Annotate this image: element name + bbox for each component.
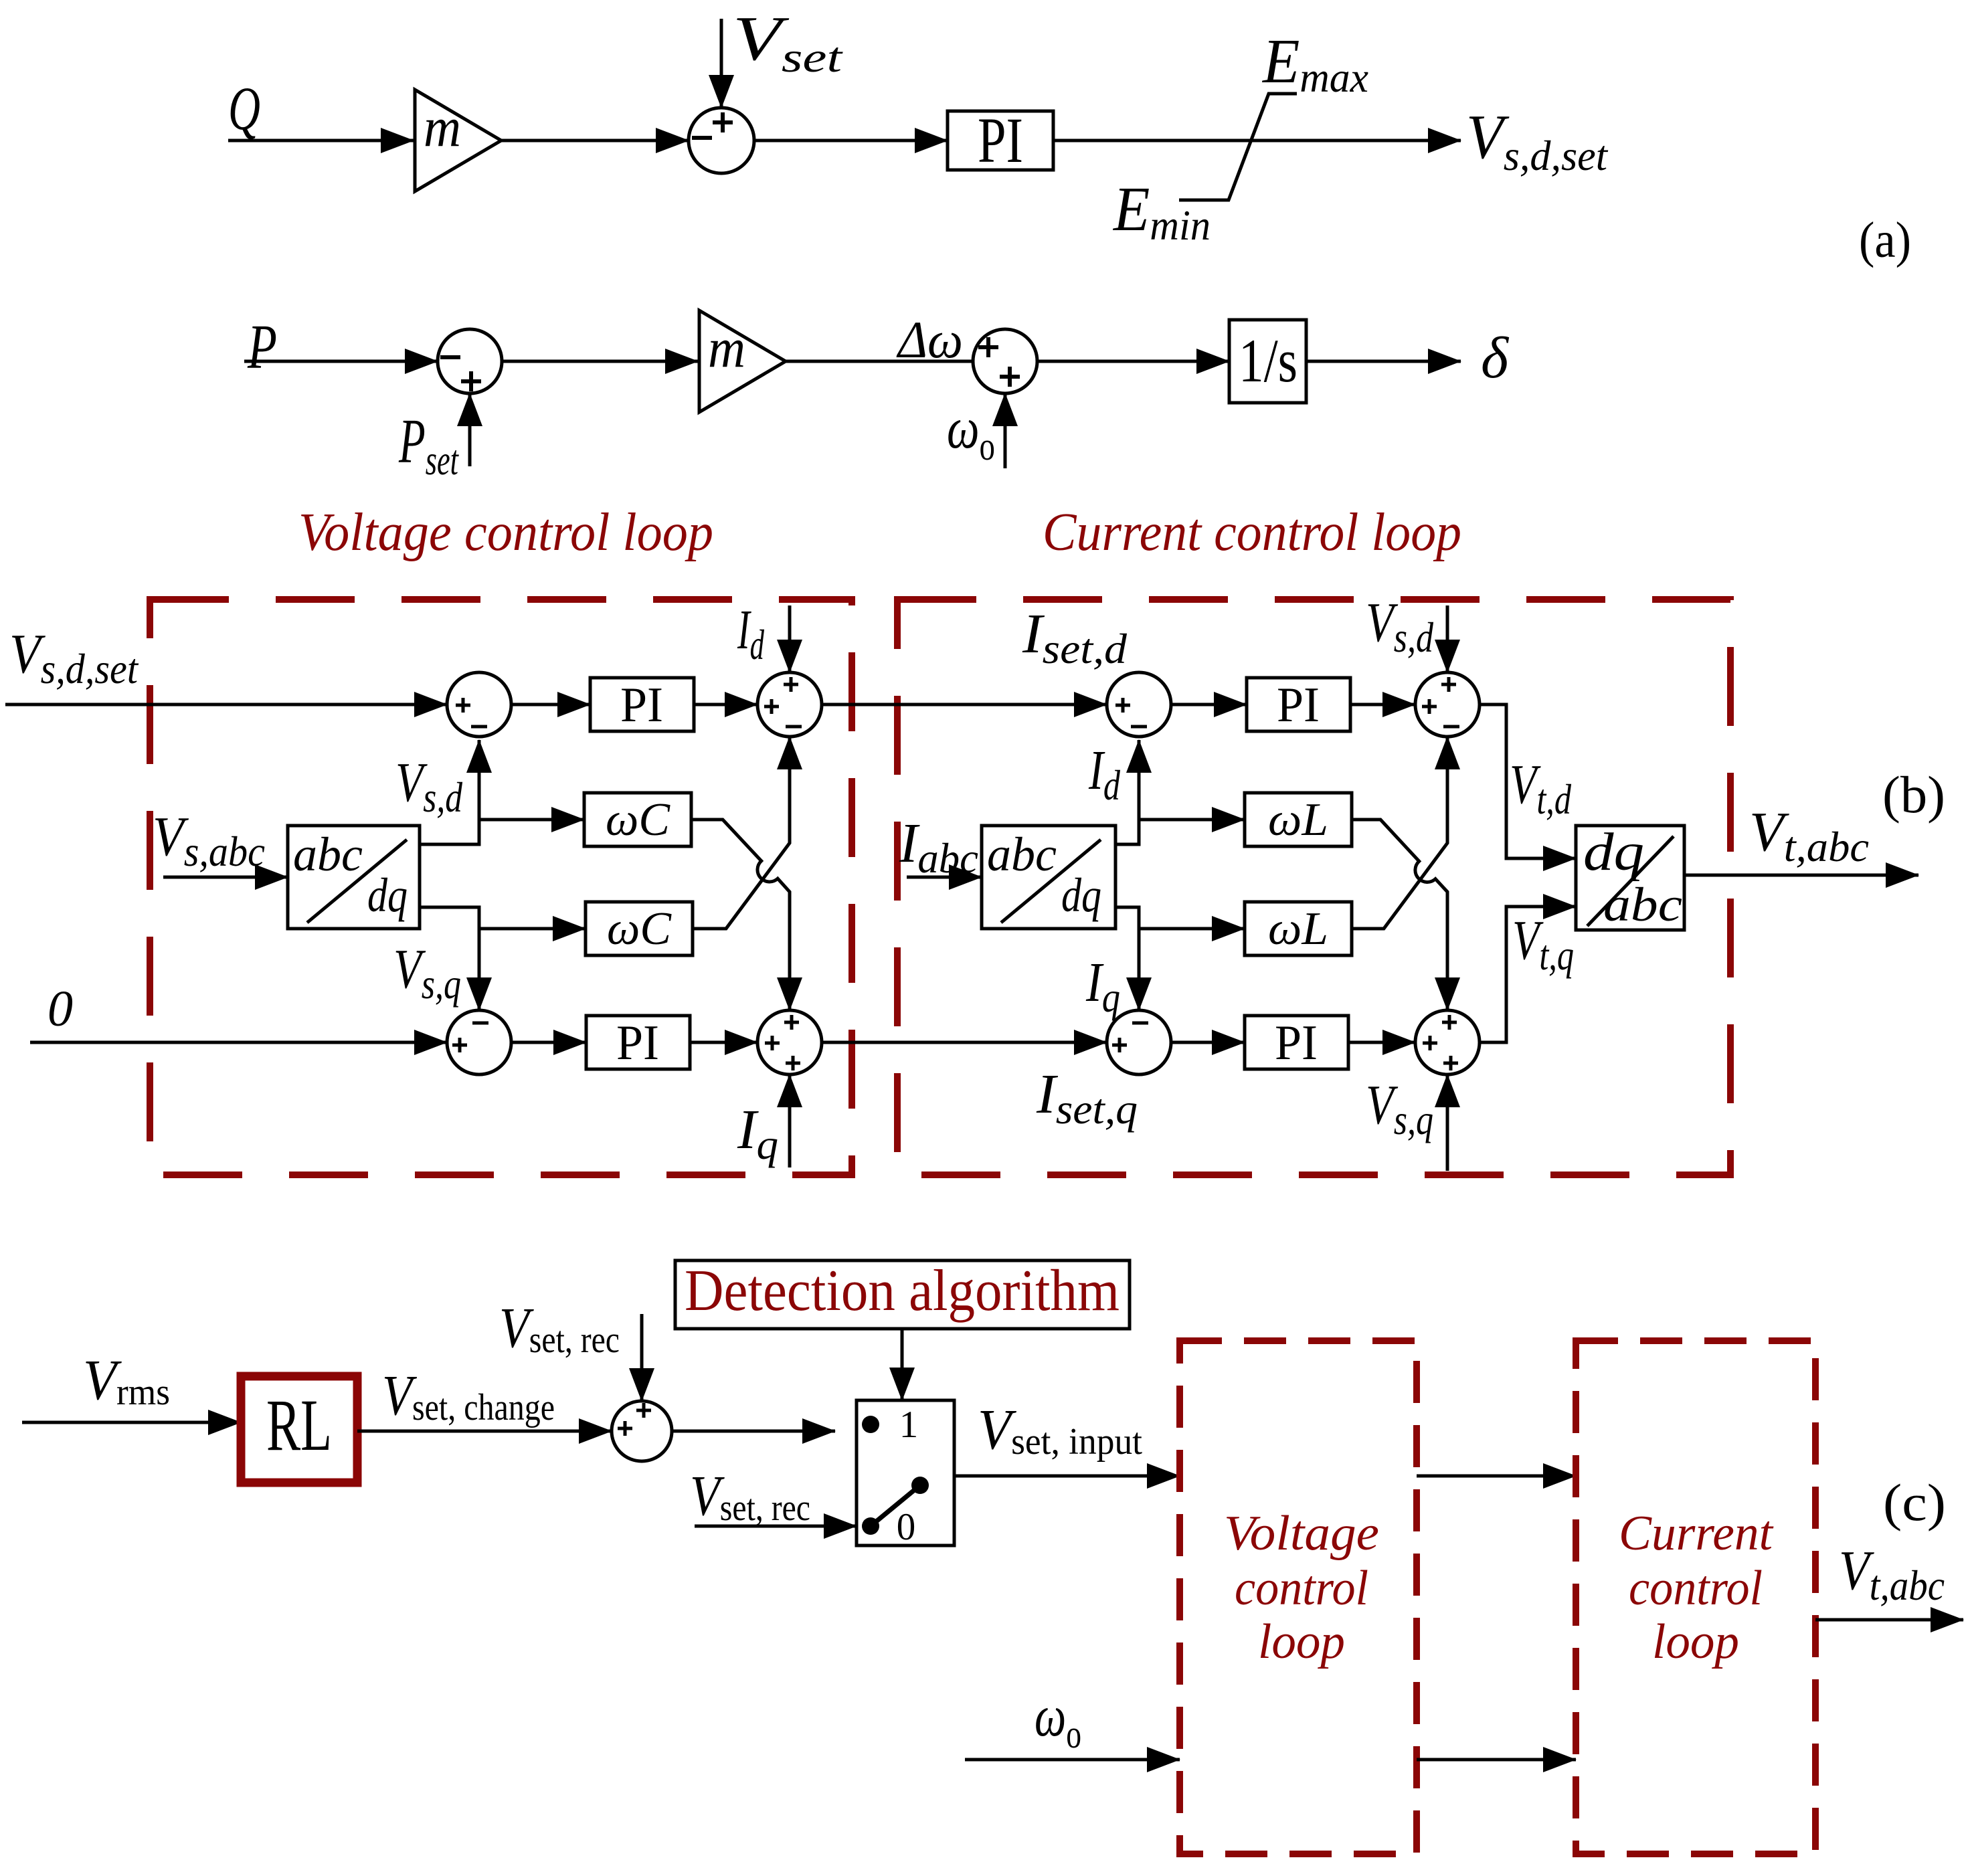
svg-text:dq: dq [1583, 823, 1644, 882]
svg-text:loop: loop [1652, 1614, 1739, 1669]
summing junction VB1 [447, 1010, 511, 1074]
transform block abc/dq2 [982, 826, 1115, 929]
wire Vsd into CA2 [1446, 605, 1449, 672]
svg-text:0: 0 [897, 1506, 916, 1548]
wire branch to omegaL2 [1139, 927, 1245, 931]
wire Pset into S2 [468, 393, 472, 466]
PI block PI5 [1245, 1016, 1348, 1069]
svg-text:PI: PI [620, 678, 663, 733]
wire PI4 to VB2 [690, 1041, 757, 1044]
svg-text:P: P [247, 312, 277, 382]
summing junction S9 [612, 1401, 672, 1461]
gain m2 triangle [699, 310, 786, 412]
wire Id into VA2 [788, 605, 792, 672]
summing junction CA1 [1107, 672, 1171, 737]
wire S1 to PI1 [754, 139, 948, 143]
wire omegaL2 cross up to CA2 [1352, 737, 1447, 929]
integrator block 1/s [1229, 320, 1306, 403]
svg-text:(c): (c) [1883, 1473, 1946, 1531]
wire voltage loop to current loop top [1417, 1475, 1576, 1478]
svg-text:RL: RL [266, 1384, 332, 1466]
wire current loop to Vtabc output [1815, 1618, 1963, 1622]
wire RL to S9 [357, 1430, 612, 1433]
svg-text:PI: PI [1275, 1016, 1318, 1070]
wire omegaL1 cross down to CB2 with hop [1352, 820, 1447, 1010]
wire PI5 to CB2 [1348, 1041, 1415, 1044]
block omegaC1 [584, 793, 691, 846]
wire switch to voltage loop [954, 1475, 1180, 1478]
svg-text:dq: dq [367, 868, 408, 922]
dashed box voltage control loop (c) [1180, 1341, 1417, 1854]
svg-text:m: m [708, 317, 745, 379]
svg-text:Voltage: Voltage [1224, 1506, 1379, 1561]
detection algorithm block [675, 1260, 1130, 1329]
wire VB2 to CB1 [822, 1041, 1107, 1044]
wire detection to switch [901, 1329, 904, 1400]
PI block PI3 [1247, 678, 1350, 731]
svg-text:abc: abc [293, 828, 363, 881]
summing junction CB1 [1107, 1010, 1171, 1074]
wire dq/abc to Vtabc output [1684, 874, 1918, 877]
dashed box current control loop [897, 599, 1730, 1175]
svg-text:control: control [1629, 1561, 1763, 1616]
transform block abc/dq1 [288, 826, 420, 929]
summing junction VA1 [447, 672, 511, 737]
wire Vsabc into abc/dq1 [163, 876, 288, 879]
wire S9 to switch input 1 [672, 1430, 835, 1433]
svg-text:control: control [1235, 1561, 1368, 1616]
wire VA2 to CA1 [822, 703, 1107, 707]
summing junction VB2 [757, 1010, 822, 1074]
summing junction S2 [438, 329, 502, 393]
wire abc/dq2 Id output up to CA1 [1115, 740, 1139, 844]
wire m2 to summing junction S3 [786, 360, 973, 363]
svg-text:δ: δ [1481, 326, 1510, 391]
svg-text:dq: dq [1061, 868, 1101, 922]
svg-text:abc: abc [987, 828, 1057, 881]
svg-text:Current control loop: Current control loop [1043, 503, 1461, 562]
dashed box voltage control loop [150, 599, 852, 1175]
block omegaL2 [1245, 902, 1352, 955]
wire 1/s to delta output [1306, 360, 1461, 363]
wire VA1 to PI2 [511, 703, 590, 707]
wire omega0 into voltage loop [965, 1758, 1180, 1762]
wire CB1 to PI5 [1171, 1041, 1245, 1044]
wire abc/dq1 Vsd output up to VA1 [420, 740, 479, 844]
wire Vrms to RL [22, 1421, 241, 1424]
svg-text:Q: Q [228, 74, 260, 143]
svg-text:Voltage control loop: Voltage control loop [298, 503, 713, 562]
svg-text:Δω: Δω [896, 310, 963, 369]
wire PI2 to VA2 [694, 703, 757, 707]
wire branch to omegaC2 [479, 927, 586, 931]
svg-text:ωC: ωC [606, 794, 670, 846]
wire VB1 to PI4 [511, 1041, 586, 1044]
wire omega0 into S3 [1004, 393, 1007, 468]
svg-text:1/s: 1/s [1239, 326, 1298, 395]
summing junction S1 [689, 108, 754, 173]
svg-text:ωL: ωL [1268, 794, 1328, 846]
wire CB2 to dq/abc Vtq input [1480, 907, 1576, 1042]
wire Vsq into CB2 [1446, 1074, 1449, 1171]
wire Vsdset to VA1 [5, 703, 447, 707]
svg-text:Current: Current [1619, 1506, 1774, 1561]
wire branch to omegaC1 [479, 818, 584, 822]
wire abc/dq2 Iq output down to CB1 [1115, 907, 1139, 1010]
svg-text:ωL: ωL [1268, 903, 1328, 955]
summing junction CA2 [1415, 672, 1480, 737]
svg-text:loop: loop [1258, 1614, 1345, 1669]
svg-text:ωC: ωC [607, 903, 672, 955]
wire omegaC1 cross down to VB2 with hop [691, 820, 790, 1010]
svg-text:(b): (b) [1882, 765, 1945, 824]
svg-text:PI: PI [1277, 678, 1320, 733]
wire P to summing junction S2 [244, 360, 438, 363]
wire abc/dq1 Vsq output down to VB1 [420, 907, 479, 1010]
wire Iabc into abc/dq2 [907, 876, 982, 879]
wire Vset into S1 [720, 19, 723, 108]
wire S3 to integrator [1037, 360, 1229, 363]
dashed box current control loop (c) [1576, 1341, 1815, 1854]
PI block PI1 [948, 111, 1053, 170]
wire S2 to gain m2 [502, 360, 698, 363]
svg-text:abc: abc [1603, 878, 1682, 931]
switch block SW1 [857, 1400, 954, 1545]
wire Q to gain m1 [228, 139, 414, 143]
wire CA1 to PI3 [1171, 703, 1247, 707]
svg-text:PI: PI [616, 1016, 659, 1070]
switch terminal dot 1 [862, 1416, 879, 1433]
wire CA2 to dq/abc Vtd input [1480, 705, 1576, 858]
transform block dq/abc [1576, 826, 1684, 930]
saturation limiter [1179, 94, 1297, 200]
svg-text:(a): (a) [1859, 212, 1911, 268]
RL agent block [241, 1376, 357, 1483]
PI block PI2 [590, 678, 694, 731]
wire Vsetrec2 to switch input 0 [695, 1525, 857, 1528]
svg-text:PI: PI [978, 104, 1023, 176]
summing junction VA2 [757, 672, 822, 737]
wire Iq into VB2 [788, 1074, 792, 1167]
block omegaL1 [1245, 793, 1352, 846]
summing junction CB2 [1415, 1010, 1480, 1074]
svg-text:Detection algorithm: Detection algorithm [685, 1258, 1120, 1323]
gain m1 triangle [415, 90, 501, 191]
block omegaC2 [586, 902, 693, 955]
svg-text:0: 0 [48, 981, 73, 1037]
wire PI1 to output [1053, 139, 1461, 143]
wire zero to VB1 [30, 1041, 447, 1044]
wire omegaC2 cross up to VA2 [693, 737, 790, 929]
svg-text:m: m [424, 96, 461, 159]
wire m1 to summing junction S1 [501, 139, 689, 143]
svg-text:1: 1 [899, 1404, 919, 1446]
summing junction S3 [973, 329, 1037, 393]
switch lever [871, 1485, 920, 1526]
wire voltage loop to current loop bottom [1417, 1758, 1576, 1762]
wire Vsetrec into S9 [640, 1314, 644, 1401]
PI block PI4 [586, 1016, 690, 1069]
wire PI3 to CA2 [1350, 703, 1415, 707]
wire branch to omegaL1 [1139, 818, 1245, 822]
